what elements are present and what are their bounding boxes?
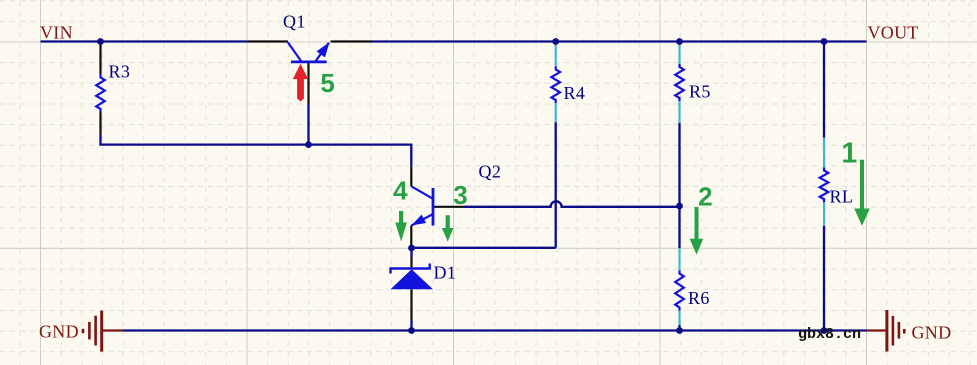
svg-text:R6: R6 xyxy=(688,288,710,308)
svg-text:2: 2 xyxy=(698,181,712,211)
svg-text:gbx8.cn: gbx8.cn xyxy=(798,326,861,343)
svg-text:4: 4 xyxy=(393,176,408,206)
svg-text:R5: R5 xyxy=(689,82,711,102)
svg-text:GND: GND xyxy=(912,323,952,343)
svg-text:Q2: Q2 xyxy=(479,162,502,182)
svg-text:GND: GND xyxy=(39,322,79,342)
svg-text:R3: R3 xyxy=(109,62,131,82)
svg-text:5: 5 xyxy=(320,68,334,98)
svg-text:D1: D1 xyxy=(434,263,457,283)
svg-text:RL: RL xyxy=(830,187,854,207)
svg-text:3: 3 xyxy=(453,180,467,210)
svg-text:1: 1 xyxy=(841,137,857,169)
svg-text:Q1: Q1 xyxy=(283,12,306,32)
svg-text:VIN: VIN xyxy=(40,22,73,42)
svg-text:R4: R4 xyxy=(564,83,586,103)
svg-text:VOUT: VOUT xyxy=(868,22,919,42)
